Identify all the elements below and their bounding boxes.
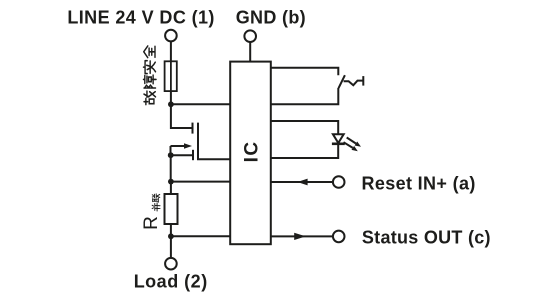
resistor R (parallel): [165, 194, 178, 224]
并: [152, 203, 160, 211]
terminal Load (2): [165, 258, 177, 270]
op-amp IC U1 box: [230, 62, 271, 245]
transistor Q1 channel bar and source wire to IC: [198, 123, 230, 160]
LED D1 light arrow 1: [347, 138, 356, 144]
wire node B down to node C: [170, 155, 172, 181]
node D junction (resistor bottom): [168, 233, 174, 239]
wire IC to Reset IN+ terminal: [271, 181, 333, 183]
wire through fuse to node A: [170, 61, 172, 104]
wire node C to resistor: [170, 182, 172, 194]
svg-text:Reset IN+ (a): Reset IN+ (a): [362, 173, 476, 193]
wire node D to Load terminal: [170, 236, 172, 258]
svg-text:R: R: [141, 216, 162, 230]
svg-text:Load (2): Load (2): [134, 272, 208, 292]
wire LINE terminal to fuse: [170, 41, 172, 61]
arrowhead Status OUT (output, pointing right): [294, 233, 306, 240]
wire node A to transistor drain: [171, 104, 192, 128]
transistor Q1 gate drop wire: [170, 146, 172, 155]
LED D1 triangle: [333, 134, 344, 143]
svg-text:IC: IC: [242, 140, 263, 162]
switch S1 lever: [339, 75, 345, 88]
terminal Status OUT (c): [333, 231, 345, 243]
全: [144, 46, 155, 58]
wire node C to IC pin 3: [171, 181, 230, 183]
wire IC to Status OUT terminal: [271, 235, 333, 237]
svg-text:LINE 24 V DC (1): LINE 24 V DC (1): [67, 7, 214, 27]
terminal LINE 24 V DC (1): [165, 30, 177, 42]
安: [143, 61, 155, 74]
arrowhead Reset IN+ (input, pointing left): [297, 179, 307, 186]
障: [143, 75, 156, 88]
transistor Q1 gate arrowhead: [184, 143, 192, 149]
wire IC to LED anode: [271, 121, 338, 134]
node A junction: [168, 101, 174, 107]
terminal GND (b): [244, 30, 256, 42]
label 故障安全 (fail-safe): [143, 46, 156, 105]
terminal Reset IN+ (a): [333, 176, 345, 188]
LED D1 cathode bar: [332, 143, 345, 146]
wire node D to IC pin 4: [171, 235, 230, 237]
node B junction (gate node): [168, 152, 174, 158]
wire IC to switch top contact: [271, 68, 339, 76]
联: [152, 194, 159, 202]
svg-text:GND (b): GND (b): [236, 7, 306, 27]
svg-text:Status OUT (c): Status OUT (c): [362, 228, 491, 248]
fuse F1 (fail-safe): [165, 61, 177, 91]
transistor Q1 drain plate: [192, 123, 194, 134]
transistor Q1 gate arrow wire: [171, 145, 185, 147]
node C junction (resistor top): [168, 179, 174, 185]
wire IC to switch bottom / lever pivot: [271, 88, 339, 104]
wire node A to IC pin 1: [171, 103, 230, 105]
transistor Q1 gate plate wire: [171, 154, 193, 156]
switch S1 spring actuator: [344, 81, 364, 86]
wire GND terminal to IC top: [249, 42, 251, 62]
transistor Q1 gate plate: [192, 150, 194, 160]
LED D1 light arrow 2: [344, 142, 353, 148]
switch S1 end stop bar: [362, 76, 364, 86]
故: [144, 91, 156, 105]
wire LED cathode to IC: [271, 145, 338, 158]
wire resistor to node D: [170, 224, 172, 236]
